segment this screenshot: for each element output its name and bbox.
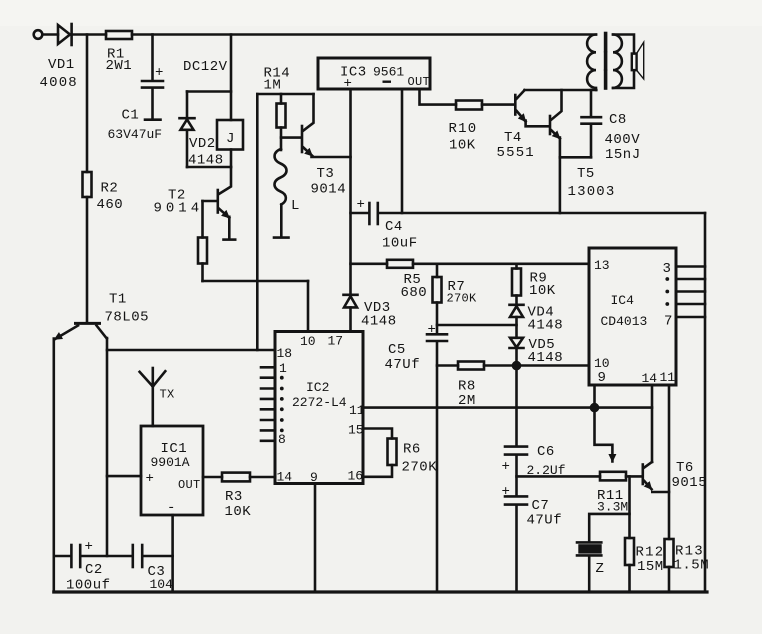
transformer primary xyxy=(587,35,596,91)
node R8-VD5-pin10 junction xyxy=(513,362,520,369)
resistor R4 xyxy=(198,238,207,264)
wire IC4 pin11 xyxy=(668,385,671,539)
resistor R9 xyxy=(512,269,521,296)
svg-text:TX: TX xyxy=(160,388,175,402)
svg-text:1: 1 xyxy=(279,361,287,376)
svg-text:11: 11 xyxy=(660,370,676,385)
transistor T4 xyxy=(515,90,548,126)
svg-text:T5: T5 xyxy=(577,166,595,182)
svg-text:16: 16 xyxy=(348,469,364,484)
wire xyxy=(515,264,518,269)
svg-text:T3: T3 xyxy=(317,166,335,182)
wire IC2 pin16 xyxy=(363,465,392,477)
node pin9-pin11 junction xyxy=(591,404,598,411)
svg-text:10: 10 xyxy=(594,356,610,371)
wire T4 collector rail xyxy=(525,89,597,92)
wire IC4 pin14 xyxy=(651,385,654,462)
IC4 right pin stubs xyxy=(676,267,705,318)
svg-text:9014: 9014 xyxy=(154,201,204,217)
svg-text:9: 9 xyxy=(598,370,607,386)
svg-text:8: 8 xyxy=(278,432,286,447)
wire xyxy=(143,555,172,558)
svg-text:Z: Z xyxy=(596,561,605,577)
svg-text:T1: T1 xyxy=(109,292,127,308)
wire xyxy=(72,33,106,36)
svg-text:4008: 4008 xyxy=(40,75,78,91)
wire xyxy=(201,201,204,238)
wire IC3 minus pin xyxy=(401,89,404,213)
wire IC4 pin9 xyxy=(593,385,596,408)
wire T3 emitter xyxy=(312,156,351,159)
input terminal xyxy=(34,30,43,39)
wire xyxy=(43,33,58,36)
svg-text:C2: C2 xyxy=(85,562,103,578)
resistor R13 xyxy=(665,539,674,567)
capacitor C3 xyxy=(133,545,142,567)
wire xyxy=(613,35,634,54)
wire mid rail xyxy=(351,262,388,265)
svg-text:C5: C5 xyxy=(388,342,406,358)
transistor T1 xyxy=(55,323,107,339)
wire xyxy=(628,565,631,592)
resistor R14 xyxy=(277,104,286,128)
wire xyxy=(86,197,89,322)
svg-text:15M: 15M xyxy=(637,559,664,575)
antenna TX xyxy=(140,368,166,426)
resistor R3 xyxy=(222,473,250,482)
svg-text:R2: R2 xyxy=(101,181,119,197)
wire oscillator loop top xyxy=(257,93,313,96)
wire IC2 pin9 xyxy=(314,484,317,593)
svg-text:63V47uF: 63V47uF xyxy=(108,127,163,142)
svg-text:+: + xyxy=(502,484,511,500)
wire IC3 out pin xyxy=(420,89,457,105)
relay J xyxy=(217,120,243,150)
wire top rail xyxy=(132,33,596,36)
wire T2 base xyxy=(203,200,217,203)
wire xyxy=(559,157,562,213)
wire xyxy=(186,92,189,119)
svg-text:+: + xyxy=(85,539,94,555)
wire xyxy=(81,555,131,558)
wire xyxy=(613,70,634,88)
capacitor C5 xyxy=(427,334,447,592)
svg-text:+: + xyxy=(357,197,366,213)
diode VD5 xyxy=(510,338,524,348)
wire crystal branch xyxy=(589,514,629,542)
svg-text:9: 9 xyxy=(310,470,318,485)
svg-text:5551: 5551 xyxy=(497,145,535,161)
diode VD4 xyxy=(510,305,524,317)
resistor R5 xyxy=(387,260,413,268)
transistor T6 xyxy=(643,462,669,492)
svg-text:+: + xyxy=(502,459,511,475)
svg-text:9014: 9014 xyxy=(311,182,347,198)
svg-text:VD1: VD1 xyxy=(48,57,75,73)
wire xyxy=(515,348,518,446)
wire xyxy=(280,94,283,104)
wire IC1 plus xyxy=(107,475,141,478)
svg-text:2W1: 2W1 xyxy=(106,58,133,74)
svg-text:IC2: IC2 xyxy=(306,380,329,395)
IC4 pin dots xyxy=(665,277,669,306)
wire R4 to IC2 pin10 xyxy=(203,280,309,283)
IC2 pin dots xyxy=(280,376,284,432)
speaker xyxy=(632,42,644,79)
wire xyxy=(628,476,631,538)
wire IC2 pin15 xyxy=(363,429,392,439)
resistor R11 xyxy=(600,472,626,481)
svg-text:78L05: 78L05 xyxy=(105,310,150,326)
wire T5 emitter to C8 bottom xyxy=(560,156,591,159)
resistor R6 xyxy=(388,439,397,466)
wire R3 to IC2 pin14 xyxy=(250,476,275,479)
capacitor C6 xyxy=(505,447,527,496)
svg-text:C8: C8 xyxy=(609,112,627,128)
capacitor C7 xyxy=(505,496,527,592)
svg-text:7: 7 xyxy=(664,314,673,330)
svg-text:-: - xyxy=(167,500,176,516)
wire xyxy=(437,364,458,367)
wire bottom rail xyxy=(54,590,707,593)
svg-text:C6: C6 xyxy=(537,444,555,460)
wire xyxy=(106,338,109,556)
IC4 CD4013 box xyxy=(589,248,676,385)
svg-text:9561: 9561 xyxy=(373,65,404,80)
IC2 left pin stubs xyxy=(261,367,275,441)
svg-text:10K: 10K xyxy=(529,283,556,299)
inductor L xyxy=(274,149,289,238)
svg-text:R6: R6 xyxy=(403,442,421,458)
svg-text:1.5M: 1.5M xyxy=(674,558,710,574)
svg-text:11: 11 xyxy=(349,403,365,418)
wire xyxy=(436,303,439,334)
resistor R8 xyxy=(458,362,484,370)
wire xyxy=(52,339,55,593)
svg-text:+: + xyxy=(146,471,155,487)
wire xyxy=(54,555,70,558)
wire xyxy=(230,35,233,121)
wire right bus xyxy=(704,213,707,592)
transformer core xyxy=(604,34,608,89)
wire xyxy=(307,281,310,332)
svg-text:9015: 9015 xyxy=(672,475,708,491)
svg-text:CD4013: CD4013 xyxy=(601,314,648,329)
wire T1 to IC2 pin18 xyxy=(107,349,275,352)
svg-text:2M: 2M xyxy=(458,393,476,409)
wire xyxy=(482,103,514,106)
svg-text:10K: 10K xyxy=(449,138,476,154)
wire R7-VD4 link xyxy=(437,324,517,327)
svg-text:VD2: VD2 xyxy=(189,136,216,152)
wire VD2 loop top xyxy=(187,90,231,93)
capacitor C2 xyxy=(71,545,80,567)
wire VD2 loop bottom xyxy=(187,166,231,169)
svg-text:J: J xyxy=(226,131,235,147)
svg-text:400V: 400V xyxy=(605,132,641,148)
resistor R1 xyxy=(106,31,132,39)
wire xyxy=(515,296,518,305)
wire xyxy=(668,567,671,592)
resistor R10 xyxy=(456,101,482,110)
svg-text:9901A: 9901A xyxy=(151,455,190,470)
transformer secondary xyxy=(613,35,622,88)
wire IC1 minus xyxy=(171,515,174,592)
wire xyxy=(588,557,591,592)
wire xyxy=(186,130,189,167)
svg-text:10: 10 xyxy=(300,334,316,349)
wire xyxy=(626,475,641,478)
wire R8 to IC4 pin10 xyxy=(484,364,589,367)
label IC3 minus xyxy=(383,80,392,82)
resistor R7 xyxy=(433,277,442,303)
svg-text:OUT: OUT xyxy=(408,75,431,89)
resistor R2 xyxy=(83,172,92,197)
svg-text:+: + xyxy=(344,76,353,92)
svg-text:C4: C4 xyxy=(385,219,403,235)
svg-text:15: 15 xyxy=(348,423,364,438)
wire xyxy=(86,35,89,173)
svg-text:17: 17 xyxy=(328,334,344,349)
svg-text:4148: 4148 xyxy=(361,314,397,330)
svg-text:3.3M: 3.3M xyxy=(597,500,628,515)
svg-text:T6: T6 xyxy=(676,460,694,476)
svg-text:14: 14 xyxy=(277,470,293,485)
svg-text:1M: 1M xyxy=(264,78,282,94)
wire IC3 plus pin xyxy=(349,89,352,295)
svg-text:3: 3 xyxy=(663,261,672,277)
wire mid rail xyxy=(413,262,589,265)
capacitor C1 xyxy=(142,35,163,120)
wire xyxy=(230,150,233,168)
svg-text:104: 104 xyxy=(150,577,174,592)
wire xyxy=(515,317,518,338)
svg-text:2272-L4: 2272-L4 xyxy=(292,395,347,410)
svg-text:DC12V: DC12V xyxy=(183,59,228,75)
transistor T3 xyxy=(302,94,314,156)
capacitor C8 xyxy=(582,90,602,157)
svg-text:680: 680 xyxy=(401,285,428,301)
svg-text:13003: 13003 xyxy=(568,184,616,200)
svg-text:270K: 270K xyxy=(447,292,478,306)
wire xyxy=(203,476,222,479)
diode VD1 xyxy=(58,24,72,45)
diode VD3 xyxy=(344,295,358,308)
svg-text:460: 460 xyxy=(97,197,124,213)
svg-text:13: 13 xyxy=(594,258,610,273)
svg-text:15nJ: 15nJ xyxy=(605,147,641,163)
wire xyxy=(436,264,439,277)
svg-text:270K: 270K xyxy=(402,460,438,476)
wire C6-C7 to R11 xyxy=(517,475,601,478)
svg-text:4148: 4148 xyxy=(188,153,224,169)
svg-text:OUT: OUT xyxy=(178,478,201,492)
svg-text:+: + xyxy=(428,322,437,338)
svg-text:10K: 10K xyxy=(225,504,252,520)
wire IC2 pin11 to IC4 xyxy=(363,406,652,409)
resistor R12 xyxy=(625,538,634,565)
crystal Z xyxy=(577,542,601,555)
diode VD2 xyxy=(180,118,195,130)
capacitor C4 xyxy=(351,203,706,224)
wire oscillator loop left xyxy=(256,94,259,350)
op-amp IC3 9561 box xyxy=(318,58,430,89)
svg-text:C1: C1 xyxy=(122,108,140,124)
svg-text:T4: T4 xyxy=(504,130,522,146)
svg-text:10uF: 10uF xyxy=(382,236,418,252)
svg-text:IC4: IC4 xyxy=(611,293,635,308)
svg-text:R10: R10 xyxy=(449,121,478,137)
wire pin17 xyxy=(349,308,352,332)
resistor R11 wiper arrow xyxy=(595,408,613,462)
svg-text:100uf: 100uf xyxy=(66,578,111,594)
wire T3 base xyxy=(281,136,301,139)
wire xyxy=(280,128,283,151)
IC1 9901A box xyxy=(141,426,203,515)
transistor T2 xyxy=(218,167,235,240)
svg-text:R3: R3 xyxy=(225,489,243,505)
wire xyxy=(201,264,204,282)
svg-text:14: 14 xyxy=(642,371,658,386)
svg-text:4148: 4148 xyxy=(528,350,564,366)
svg-text:L: L xyxy=(291,198,300,214)
svg-text:4148: 4148 xyxy=(528,318,564,334)
transistor T5 xyxy=(550,90,562,157)
svg-text:47Uf: 47Uf xyxy=(385,357,421,373)
svg-text:2.2Uf: 2.2Uf xyxy=(527,463,566,478)
svg-text:18: 18 xyxy=(277,346,293,361)
IC2 2272-L4 box xyxy=(275,332,363,484)
svg-text:+: + xyxy=(155,65,164,81)
svg-text:47Uf: 47Uf xyxy=(527,513,563,529)
